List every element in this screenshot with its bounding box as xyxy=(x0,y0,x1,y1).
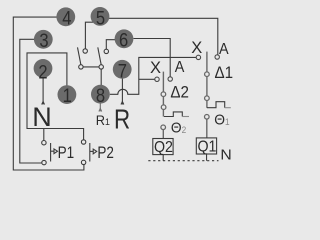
terminal 1 xyxy=(58,85,77,107)
svg-text:A: A xyxy=(219,40,229,58)
svg-text:Δ2: Δ2 xyxy=(170,84,189,102)
channel Q2 node circles xyxy=(161,92,166,130)
svg-text:Q2: Q2 xyxy=(154,138,173,156)
terminal 8 xyxy=(91,85,110,107)
wire: terminal 7 down to R with arrow xyxy=(121,79,124,105)
wire stubs from relay boxes down to neutral dotted line xyxy=(163,154,206,161)
svg-text:A: A xyxy=(175,58,185,76)
step symbol channel Q2 xyxy=(164,112,182,117)
channel Q2 X and A contact circles xyxy=(155,77,173,82)
svg-text:P2: P2 xyxy=(97,144,114,163)
channel Q1 node circles xyxy=(205,72,210,119)
svg-text:P1: P1 xyxy=(58,144,75,163)
circuit schematic of a twilight/timer switch wiring diagram xyxy=(0,0,244,180)
wire: outer loop from terminal 4 to push-button P2 lower contact xyxy=(13,17,84,170)
switch contact circles xyxy=(79,49,109,69)
device box outline: from terminal 1 up, around left side, bottom to P2 upper contact xyxy=(27,53,84,140)
svg-text:8: 8 xyxy=(96,85,105,107)
channel Q1 X and A contact circles xyxy=(196,55,219,60)
terminal 6 xyxy=(115,29,134,51)
wire: box bottom to P1 upper contact xyxy=(43,129,45,141)
svg-text:6: 6 xyxy=(119,29,128,51)
svg-text:Δ1: Δ1 xyxy=(215,64,234,82)
wire: terminal 8 up to switch pivot xyxy=(100,67,102,86)
wire: from terminal 5 right to contact A of channel Q1 xyxy=(109,18,218,57)
wire: terminal 8 right with hop over R wire, X net to X contacts xyxy=(110,57,196,94)
relay box Q2 xyxy=(153,139,173,155)
terminal 2 xyxy=(34,59,53,83)
wire: terminal 2 down to N with arrow xyxy=(42,78,45,105)
wire: from terminal 5 down-left to selector switch fixed contact xyxy=(85,22,93,51)
push-button P1 xyxy=(42,141,58,165)
wire: terminal 8 down to R1 with arrow (gray) xyxy=(99,104,102,112)
terminal 7 xyxy=(113,60,132,82)
svg-text:5: 5 xyxy=(96,7,105,29)
svg-text:N: N xyxy=(220,147,231,164)
svg-text:4: 4 xyxy=(62,7,71,29)
selector switch: two ganged levers with link xyxy=(78,47,102,67)
svg-text:X: X xyxy=(191,39,202,57)
wire: from terminal 3 to push-button P1 lower contact xyxy=(20,39,44,163)
channel Q1 gray mechanism xyxy=(206,52,208,138)
svg-text:2: 2 xyxy=(38,61,47,83)
relay box Q1 xyxy=(196,138,216,154)
terminal 4 xyxy=(56,7,75,29)
step symbol channel Q1 xyxy=(207,102,225,108)
svg-text:X: X xyxy=(150,59,161,77)
channel Q2 gray mechanism xyxy=(162,72,164,139)
svg-text:Q1: Q1 xyxy=(198,138,217,156)
terminal 3 xyxy=(34,30,53,52)
dotted neutral line at bottom xyxy=(148,160,218,162)
terminal 5 xyxy=(91,7,110,29)
push-button P2 xyxy=(81,140,96,165)
svg-text:N: N xyxy=(32,102,52,132)
wire: from terminal 6 right to contact A of channel Q2 xyxy=(134,39,171,80)
wire: from terminal 6 left to selector switch fixed contact xyxy=(106,40,115,52)
svg-text:7: 7 xyxy=(118,60,127,82)
svg-text:1: 1 xyxy=(63,85,72,107)
svg-text:R: R xyxy=(114,104,130,135)
svg-text:3: 3 xyxy=(39,30,48,52)
